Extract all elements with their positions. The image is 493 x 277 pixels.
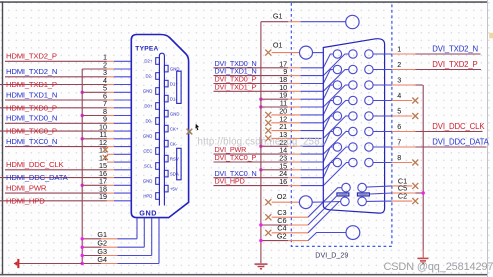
no-connect DVI pin 5 [373,107,418,119]
wire DVI pin 2 to net DVI_TXD2_P [373,60,481,70]
wire shield bus to DVI pin C6 with junction [259,196,336,226]
wire DVI pin3 ground rail vertical [422,85,424,250]
wire DVI pin 7 to net DVI_DDC_DATA [373,138,490,148]
wire GND bus to HDMI pin 5 with junction [81,84,131,94]
svg-text:D2+: D2+ [144,59,152,64]
no-connect DVI pin 8 [373,153,418,165]
connector DVI_D_29 body [323,39,384,213]
svg-text:HDMI_TXD1_P: HDMI_TXD1_P [6,80,57,89]
svg-text:4: 4 [397,91,401,100]
wire net HDMI_TXD1_P to HDMI pin 4 [0,76,131,89]
no-connect DVI pin 21 [265,116,333,134]
power port arrow GND [14,261,18,266]
svg-text:O2: O2 [277,192,287,201]
wire net DVI_PWR to DVI pin 14 [214,132,349,155]
svg-text:1: 1 [397,45,401,54]
svg-text:8: 8 [397,153,401,162]
wire net HDMI_PWR to HDMI pin 18 [5,184,131,194]
wire shield bus to DVI pin 11 with junction [259,85,349,109]
svg-text:16: 16 [279,177,287,186]
svg-text:DVI_D_29: DVI_D_29 [315,252,348,259]
svg-text:GND: GND [143,179,153,184]
wire net HDMI_HPD to HDMI pin 19 [0,192,131,205]
svg-text:HDMI_TXD2_N: HDMI_TXD2_N [6,67,57,76]
no-connect DVI pin O2 with shell circle [265,192,340,209]
HDMI tongue [159,53,164,205]
svg-text:DVI_DDC_CLK: DVI_DDC_CLK [432,122,485,131]
svg-text:C2: C2 [398,192,407,201]
no-connect DVI pin 13 [265,116,348,141]
svg-text:HDMI_DDC_CLK: HDMI_DDC_CLK [6,160,64,169]
wire GND rail to sheet left [19,263,82,265]
DVI pin hole circles [333,50,373,167]
wire net HDMI_TXD2_P to HDMI pin 1 [5,52,131,62]
svg-text:CK-: CK- [170,141,178,146]
svg-text:+5V: +5V [170,186,178,191]
wire HDMI GND pin G3 with junction [81,218,152,257]
svg-text:RSV: RSV [170,156,179,161]
svg-text:HDMI_TXD0_P: HDMI_TXD0_P [6,103,57,112]
svg-text:3: 3 [397,76,401,85]
svg-text:DVI_TXD1_P: DVI_TXD1_P [215,82,257,91]
svg-text:D0+: D0+ [144,104,152,109]
wire net DVI_TXD1_N to DVI pin 9 [214,54,349,76]
svg-text:7: 7 [397,138,401,147]
schematic sheet border left [2,1,3,275]
svg-text:DVI_DDC_DATA: DVI_DDC_DATA [432,138,489,147]
svg-text:2: 2 [397,60,401,69]
wire DVI pin 3 to ground rail [373,76,423,85]
svg-text:D1-: D1- [170,96,177,101]
wire net HDMI_TXD0_N to HDMI pin 9 [5,114,131,124]
no-connect DVI pin 4 [373,91,418,103]
wire GND bus to HDMI pin 2 [82,60,131,69]
wire net HDMI_TXD1_N to HDMI pin 6 [5,90,131,100]
ground symbol right [417,258,428,263]
svg-text:D0-: D0- [145,119,152,124]
connector TYPEA HDMI body [131,35,188,218]
wire net HDMI_TXD2_N to HDMI pin 3 [5,67,131,77]
ground symbol left [255,264,268,269]
wire shield bus to DVI pin 15 with junction [259,147,349,172]
wire shield bus to DVI pin G2 with junction [259,231,346,242]
svg-text:HDMI_DDC_DATA: HDMI_DDC_DATA [6,173,69,182]
schematic sheet border top [0,1,487,3]
wire HDMI GND pin G4 with junction [81,218,160,265]
wire GND bus to HDMI pin 8 with junction [81,107,131,117]
wire DVI pin 1 to net DVI_TXD2_N [373,45,480,55]
wire net HDMI_TXD0_P to HDMI pin 7 [0,99,131,112]
HDMI shell contact upper [177,71,181,103]
schematic sheet border bottom [0,274,488,276]
svg-text:http://blog.csdn.net/qq_2581: http://blog.csdn.net/qq_2581 [198,137,326,148]
wire DVI pin 6 to net DVI_DDC_CLK [373,122,485,132]
no-connect DVI pin 12 [265,101,348,126]
wire net DVI_TXC0_P to DVI pin 23 [214,147,334,163]
svg-text:CSDN @qq_25814297: CSDN @qq_25814297 [384,261,493,273]
svg-text:HDMI_TXC0_P: HDMI_TXC0_P [6,127,57,136]
wire HDMI GND pin G2 with junction [81,218,145,249]
wire shield bus to DVI pin 22 with junction [259,132,333,149]
svg-text:G1: G1 [273,12,283,21]
wire net HDMI_TXC0_P to HDMI pin 10 [0,123,131,136]
no-connect DVI pin O1 with shell circle [265,41,323,60]
wire HDMI GND vertical bus [81,69,83,264]
svg-text:GND: GND [170,111,180,116]
no-connect DVI pin C3 [265,188,341,221]
no-connect HDMI pin 13 [99,146,131,155]
svg-text:GND: GND [143,89,153,94]
svg-text:DVI_HPD: DVI_HPD [215,177,245,186]
wire DVI pin C5 to ground rail with junction [370,183,425,194]
wire net DVI_TXD0_P to DVI pin 18 [214,70,334,85]
no-ERC marker at cursor [187,129,193,135]
svg-text:HDMI_TXD2_P: HDMI_TXD2_P [6,52,57,61]
svg-text:5: 5 [397,107,401,116]
svg-text:TYPEA: TYPEA [135,46,158,53]
wire HDMI GND pin G1 with junction [81,218,138,240]
no-connect DVI pin C2 [367,192,419,205]
wire net DVI_HPD to DVI pin 16 [214,163,349,187]
svg-text:G2: G2 [277,231,287,240]
DVI analog blade contacts [337,193,370,196]
HDMI even-pin contacts and names [164,65,179,192]
svg-text:D2-: D2- [145,74,152,79]
wire GND bus to HDMI pin 17 with junction [81,177,131,187]
svg-text:19: 19 [99,192,107,201]
wire DVI shield bus vertical [260,22,262,264]
svg-text:CEC: CEC [143,149,152,154]
wire net HDMI_TXC0_N to HDMI pin 12 [5,137,131,147]
svg-text:D1+: D1+ [170,81,178,86]
DVI shell circle bottom [346,226,360,240]
svg-text:HDMI_TXD0_N: HDMI_TXD0_N [6,114,57,123]
HDMI shell contact lower [177,148,181,180]
svg-text:GND: GND [143,134,153,139]
no-connect DVI pin C4 [265,202,340,236]
wire net HDMI_DDC_CLK to HDMI pin 15 [5,160,131,170]
svg-text:HDMI_PWR: HDMI_PWR [6,184,47,193]
no-connect DVI pin C1 [367,176,419,189]
DVI part selection box dashed [291,3,392,246]
wire net DVI_TXD0_N to DVI pin 17 [214,54,334,68]
wire GND bus to HDMI pin 11 with junction [81,130,131,140]
mouse cursor [195,124,199,130]
svg-text:HDMI_TXC0_N: HDMI_TXC0_N [6,137,57,146]
svg-text:DVI_TXC0_P: DVI_TXC0_P [215,153,257,162]
wire net DVI_TXD1_P to DVI pin 10 [214,70,349,92]
svg-text:SDA: SDA [170,171,179,176]
svg-text:DVI_TXD2_N: DVI_TXD2_N [432,45,478,54]
svg-text:GND: GND [139,208,157,217]
wire shield bus to DVI pin 19 with junction [259,85,333,101]
svg-text:HPD: HPD [143,194,152,199]
svg-text:O1: O1 [273,41,283,50]
svg-text:6: 6 [397,122,401,131]
svg-text:CK+: CK+ [170,126,179,131]
svg-text:HDMI_TXD1_N: HDMI_TXD1_N [6,90,57,99]
no-connect HDMI pin 14 [99,154,131,163]
svg-text:GND: GND [170,66,180,71]
DVI analog pins C1-C4 circles [341,183,367,205]
wire net DVI_TXC0_N to DVI pin 24 [214,163,334,179]
svg-text:SCL: SCL [144,164,153,169]
window edge right [487,0,488,277]
svg-text:HDMI_HPD: HDMI_HPD [6,196,45,205]
wire shield bus to DVI pin G1 with shell circle [261,12,359,29]
wire net HDMI_DDC_DATA to HDMI pin 16 [0,169,131,182]
svg-text:DVI_TXD2_P: DVI_TXD2_P [432,60,477,69]
no-connect DVI pin 20 [265,101,333,118]
svg-text:G4: G4 [97,255,107,264]
HDMI odd-pin contacts and names [143,58,160,200]
